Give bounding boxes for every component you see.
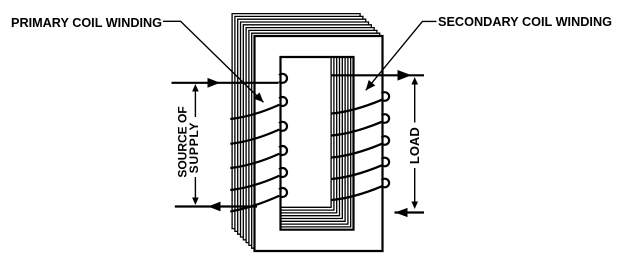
primary winding turn 4 front strand	[230, 154, 279, 168]
primary winding loop 4	[279, 146, 287, 155]
rear lamination 8	[232, 14, 360, 229]
rear lamination 3	[246, 28, 374, 243]
rear lamination 7	[235, 16, 363, 231]
arrow on primary input wire (points right)	[208, 78, 221, 88]
primary winding loop 1	[279, 74, 287, 83]
front lamination (core face with window)	[255, 36, 383, 251]
svg-text:SUPPLY: SUPPLY	[187, 122, 201, 174]
secondary winding turn 3 front strand	[332, 144, 383, 158]
arrow on primary output wire (points left)	[208, 202, 221, 212]
primary winding: output wire (bottom left)	[175, 205, 257, 207]
arrow on secondary bottom wire (points left)	[395, 208, 408, 217]
solid arrowhead of secondary leader	[366, 80, 376, 90]
primary winding loop 2	[279, 97, 287, 106]
secondary winding turn 4 front strand	[332, 165, 383, 179]
secondary winding loop 3	[382, 136, 389, 145]
up arrow toward primary input wire	[192, 84, 199, 92]
secondary winding: bottom wire (bottom right)	[395, 211, 425, 213]
rear lamination 6	[238, 19, 366, 234]
primary winding loop 5	[279, 168, 287, 177]
svg-text:LOAD: LOAD	[407, 127, 422, 164]
primary winding loop 3	[279, 122, 287, 131]
secondary winding loop 5	[382, 179, 389, 188]
rear lamination 1	[252, 33, 380, 248]
source-of-supply dimension line (upper segment)	[194, 86, 196, 117]
leader line for SECONDARY COIL WINDING label	[366, 21, 437, 90]
secondary winding turn 5 front strand	[332, 186, 383, 200]
secondary winding loop 2	[382, 114, 389, 123]
primary winding: input wire (top left)	[172, 82, 279, 84]
primary winding turn 3 front strand	[230, 130, 279, 144]
source-of-supply dimension line (lower segment)	[194, 177, 196, 200]
down arrow toward secondary bottom wire	[411, 202, 418, 210]
down arrow toward primary output wire	[192, 198, 199, 206]
leader line for PRIMARY COIL WINDING label	[163, 21, 264, 102]
svg-text:PRIMARY COIL WINDING: PRIMARY COIL WINDING	[11, 16, 162, 30]
secondary winding loop 1	[382, 92, 389, 101]
primary winding turn 5 front strand	[230, 176, 279, 190]
rear lamination 2	[249, 30, 377, 245]
svg-text:SECONDARY COIL WINDING: SECONDARY COIL WINDING	[438, 15, 612, 29]
secondary winding loop 4	[382, 158, 389, 167]
secondary winding turn 2 front strand	[332, 122, 383, 136]
rear lamination 5	[241, 22, 369, 237]
load dimension line (upper segment)	[414, 79, 416, 123]
arrow on secondary top wire (points right)	[398, 70, 412, 81]
load dimension line (lower segment)	[414, 168, 416, 206]
rear lamination 4	[243, 25, 371, 240]
up arrow toward secondary top wire	[411, 77, 418, 85]
primary winding turn 6 front strand	[230, 196, 279, 212]
solid arrowhead of primary leader	[254, 92, 264, 102]
primary winding turn 2 front strand	[230, 105, 279, 119]
secondary winding turn 1 front strand	[332, 100, 383, 114]
secondary winding: output wire (top right)	[331, 74, 424, 76]
primary winding loop 6	[279, 188, 287, 197]
